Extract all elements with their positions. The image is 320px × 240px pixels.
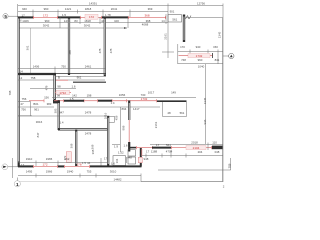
left mini dim block [18, 102, 54, 117]
svg-text:1965: 1965 [46, 157, 53, 161]
svg-text:847: 847 [36, 132, 40, 137]
svg-text:841: 841 [215, 58, 220, 62]
left outer wall [18, 17, 20, 167]
svg-text:3010: 3010 [110, 169, 117, 173]
wall x108 vertical [107, 116, 109, 166]
svg-text:17: 17 [21, 163, 25, 167]
svg-text:478: 478 [109, 48, 113, 53]
red dims on wall y147.5 [130, 146, 212, 150]
svg-text:156: 156 [44, 95, 49, 99]
svg-text:756: 756 [21, 108, 26, 112]
svg-text:561: 561 [180, 111, 185, 115]
svg-text:100: 100 [114, 19, 119, 23]
top wall red dim segments [33, 16, 166, 18]
svg-text:2161: 2161 [154, 121, 158, 128]
svg-text:1: 1 [16, 182, 19, 188]
svg-text:17: 17 [22, 13, 26, 17]
wall x54.6 vertical [53, 73, 55, 101]
svg-text:750: 750 [61, 64, 66, 68]
svg-text:17: 17 [156, 143, 160, 147]
interior wall x105 vertical [104, 17, 106, 77]
break symbol [186, 16, 192, 20]
svg-text:3016: 3016 [36, 120, 43, 124]
terrace dim line y63.5 [178, 63, 224, 65]
wall x76 vertical [75, 130, 77, 167]
svg-text:3042: 3042 [43, 24, 50, 28]
svg-text:1417: 1417 [133, 107, 140, 111]
svg-text:1818: 1818 [85, 7, 92, 11]
svg-text:1656: 1656 [119, 93, 126, 97]
vestibule boxes [113, 150, 142, 166]
dim line y68.5 [18, 67, 106, 75]
svg-text:1495: 1495 [26, 169, 33, 173]
svg-text:478: 478 [68, 50, 72, 55]
thin vertical x30.7 left room [30, 28, 32, 74]
svg-text:2161: 2161 [163, 33, 167, 40]
svg-text:048: 048 [215, 150, 220, 154]
top wall line y17 black segments [18, 16, 128, 18]
svg-text:961: 961 [34, 108, 39, 112]
svg-text:1910: 1910 [26, 157, 33, 161]
dim line y144.5 above wall [150, 143, 223, 151]
svg-text:755: 755 [87, 169, 92, 173]
svg-text:940: 940 [196, 45, 201, 49]
wall y74 horizontal [18, 74, 106, 77]
dim line y170 bottom right [158, 158, 231, 170]
terrace dim line y51.5 [178, 44, 224, 64]
svg-text:1406: 1406 [33, 64, 40, 68]
svg-text:164: 164 [115, 158, 119, 163]
survey cross [162, 17, 174, 58]
svg-text:940: 940 [22, 7, 27, 11]
svg-text:172: 172 [43, 14, 48, 18]
red vertical box near x68 [66, 152, 71, 163]
svg-text:83: 83 [74, 19, 78, 23]
svg-text:98: 98 [57, 85, 61, 89]
svg-text:1.6: 1.6 [71, 85, 75, 89]
right dim vertical x205 [205, 64, 207, 144]
svg-text:150: 150 [213, 45, 218, 49]
svg-text:1.4: 1.4 [60, 120, 64, 124]
svg-text:947: 947 [59, 111, 64, 115]
svg-text:1732: 1732 [141, 97, 148, 101]
svg-text:368: 368 [70, 143, 74, 148]
dim line y80 with red segment [18, 79, 105, 81]
dim line y88.5 [30, 88, 76, 90]
svg-text:172: 172 [42, 162, 47, 166]
top dim row2 line y22.5 [18, 14, 168, 28]
dim line y181.5 [17, 181, 223, 183]
svg-text:1.5: 1.5 [82, 161, 86, 165]
svg-text:561: 561 [166, 143, 171, 147]
svg-text:1345: 1345 [218, 31, 222, 38]
svg-text:2478: 2478 [85, 111, 92, 115]
svg-text:2041: 2041 [111, 7, 118, 11]
wall y129.5 [58, 128, 109, 130]
thin vertical x101 [100, 158, 102, 166]
svg-text:1188: 1188 [151, 150, 158, 154]
red dims on wall y100.5 [29, 97, 157, 101]
svg-text:368: 368 [91, 144, 95, 149]
svg-text:3042: 3042 [84, 24, 91, 28]
terrace red row y55.5 [179, 53, 213, 58]
svg-text:998: 998 [122, 125, 126, 130]
svg-text:2018: 2018 [191, 140, 198, 144]
svg-text:14391: 14391 [89, 2, 97, 6]
svg-text:4068: 4068 [142, 22, 149, 26]
svg-text:17: 17 [146, 150, 150, 154]
svg-text:361: 361 [26, 45, 30, 50]
svg-text:12: 12 [19, 76, 23, 80]
svg-text:948: 948 [127, 155, 132, 159]
svg-text:1421: 1421 [65, 7, 72, 11]
dim line y107 [60, 106, 160, 108]
svg-text:936: 936 [203, 119, 207, 124]
svg-text:1040: 1040 [198, 65, 205, 69]
red ticks [34, 16, 212, 168]
svg-text:47: 47 [20, 102, 24, 106]
svg-text:960: 960 [44, 7, 49, 11]
wall x58.7 vertical [58, 101, 60, 131]
bottom dim line y162.5 [18, 161, 108, 167]
dim row above wall y100: texts and line y97.5 [52, 97, 196, 99]
A bubble right [223, 53, 234, 58]
svg-text:748: 748 [181, 58, 186, 62]
svg-text:1732: 1732 [59, 91, 66, 95]
svg-text:708: 708 [8, 90, 12, 95]
svg-text:1017: 1017 [148, 90, 155, 94]
grid bubble 5 [3, 14, 18, 19]
svg-text:B01: B01 [33, 102, 39, 106]
wall x129 vertical with red door [128, 101, 130, 152]
svg-text:368: 368 [144, 14, 149, 18]
svg-text:198: 198 [87, 93, 92, 97]
svg-text:478: 478 [44, 85, 48, 90]
svg-text:14482: 14482 [113, 177, 121, 181]
svg-text:110: 110 [212, 140, 217, 144]
svg-text:1816: 1816 [104, 112, 108, 119]
svg-text:758: 758 [31, 76, 36, 80]
svg-text:1.52: 1.52 [118, 150, 124, 154]
svg-text:1.6: 1.6 [124, 144, 128, 148]
bottom dim line y175.5 [18, 174, 141, 182]
svg-text:383: 383 [47, 102, 52, 106]
bottom wall y166.5 [18, 165, 142, 167]
svg-text:561: 561 [172, 17, 177, 21]
svg-text:901: 901 [170, 9, 175, 13]
svg-text:14: 14 [20, 70, 24, 74]
svg-text:1.78: 1.78 [105, 13, 111, 17]
svg-text:1.5: 1.5 [62, 13, 66, 17]
window box top right [168, 15, 182, 22]
interior wall x69 vertical [68, 17, 70, 75]
svg-text:12756: 12756 [197, 2, 205, 6]
svg-text:2478: 2478 [85, 131, 92, 135]
svg-text:894: 894 [122, 107, 127, 111]
svg-text:17: 17 [104, 156, 108, 160]
svg-text:1.4: 1.4 [111, 101, 115, 105]
top dim row0 line [18, 4, 223, 183]
red text boxes on top wall [85, 14, 98, 19]
svg-text:948: 948 [144, 157, 149, 161]
svg-text:5: 5 [4, 14, 7, 19]
svg-text:44: 44 [87, 161, 91, 165]
svg-text:149: 149 [171, 90, 176, 94]
svg-text:961: 961 [77, 75, 82, 79]
svg-text:960: 960 [198, 58, 203, 62]
red dims on bottom wall [33, 162, 90, 166]
svg-text:204: 204 [198, 150, 203, 154]
svg-text:48: 48 [167, 111, 171, 115]
bottom-right wall y147.5 [152, 146, 223, 150]
svg-text:1818: 1818 [84, 19, 91, 23]
svg-text:062: 062 [65, 157, 70, 161]
dim line y156 [141, 150, 223, 158]
wall y100.5 horizontal with red segments [53, 100, 187, 103]
top dim row1 line [18, 4, 169, 17]
top dim row3 line y28 with arrow [18, 27, 127, 29]
dim line y116 [18, 115, 107, 117]
arrow bubble left [2, 164, 18, 170]
svg-text:478: 478 [98, 48, 102, 53]
svg-text:170: 170 [180, 45, 185, 49]
svg-text:458: 458 [115, 115, 119, 120]
svg-text:756: 756 [22, 97, 27, 101]
svg-text:1345: 1345 [203, 97, 207, 104]
right outer wall thin [222, 18, 224, 182]
red dim box y92.5 [55, 90, 71, 95]
wall x141 vertical [141, 148, 142, 167]
svg-text:14: 14 [161, 19, 165, 23]
svg-text:B: B [58, 75, 60, 79]
svg-text:98: 98 [57, 93, 61, 97]
svg-text:960: 960 [45, 19, 50, 23]
svg-text:2461: 2461 [85, 64, 92, 68]
svg-text:1.5: 1.5 [69, 97, 73, 101]
svg-text:4704: 4704 [166, 150, 173, 154]
svg-text:1940: 1940 [67, 169, 74, 173]
thin vertical x120.5 [120, 107, 122, 152]
top-right terrace edge [185, 17, 223, 19]
svg-text:383: 383 [53, 108, 57, 113]
svg-text:1.9: 1.9 [114, 145, 118, 149]
svg-text:368: 368 [91, 149, 95, 154]
left small dim vertical x12.5 [12, 158, 14, 178]
dark line y82.2 [73, 81, 106, 83]
wall stub right x184 [183, 15, 185, 43]
svg-text:1406: 1406 [22, 19, 29, 23]
closet top right [163, 102, 187, 117]
grid bubble 1 bottom [14, 178, 20, 188]
svg-text:369: 369 [148, 7, 153, 11]
svg-text:1966: 1966 [46, 169, 53, 173]
